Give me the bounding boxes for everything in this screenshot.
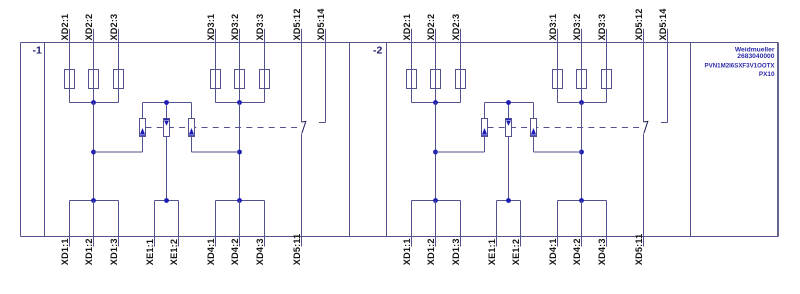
wire -2 fuse element XD3:2: [581, 70, 583, 89]
wire -1 arrester3 to XD3 node: [192, 151, 240, 153]
fuse -2 XD2:2: [431, 70, 441, 89]
svg-text:XD2:1: XD2:1: [60, 14, 70, 41]
svg-text:XD5:14: XD5:14: [316, 8, 326, 41]
wire -1 XD2:3 fuse to bus: [118, 89, 120, 103]
wire -2 XD1:2 drop: [435, 201, 437, 247]
junction -2 right node y152: [579, 150, 584, 155]
surge arrester -2 A3: [531, 119, 537, 137]
wire -1 XD3:2 top stub: [239, 29, 241, 43]
wire -1 arrester3 bottom stub: [191, 137, 193, 153]
wire -1 XD2:1 fuse to bus: [69, 89, 71, 103]
wire -1 XD2:1 top stub: [69, 29, 71, 43]
fuse -2 XD3:1: [553, 70, 563, 89]
svg-text:XE1:1: XE1:1: [145, 239, 155, 265]
wire -1 XD4 bus: [216, 200, 265, 202]
info area divider: [690, 43, 692, 237]
dashed link -1: [146, 127, 299, 129]
svg-text:XD1:2: XD1:2: [426, 238, 436, 265]
wire -1 XD2:2 to fuse: [93, 43, 95, 70]
wire -1 XD1 bus: [70, 200, 119, 202]
wire -2 XD3:3 top stub: [606, 29, 608, 43]
svg-text:XD1:2: XD1:2: [84, 238, 94, 265]
wire -1 XD5:14: [325, 29, 327, 123]
device -1 label divider: [44, 43, 46, 237]
svg-text:XD2:2: XD2:2: [84, 14, 94, 41]
dashed link -2: [488, 127, 641, 129]
surge arrester -1 A1: [140, 119, 146, 137]
wire -2 XD4 bus: [558, 200, 607, 202]
wire -1 fuse element XD2:2: [93, 70, 95, 89]
svg-text:XD2:2: XD2:2: [426, 14, 436, 41]
wire -2 XD3:3 to fuse: [606, 43, 608, 70]
fuse -1 XD3:1: [211, 70, 221, 89]
svg-text:XD4:1: XD4:1: [206, 238, 216, 265]
wire -2 XD3 bus: [558, 102, 607, 104]
svg-text:XD2:1: XD2:1: [402, 14, 412, 41]
device -2 label divider: [386, 43, 388, 237]
wire -2 XD5:14 contact stub: [661, 122, 668, 124]
wire -2 XD4:1 drop: [557, 201, 559, 247]
wire -2 arrester1 bottom stub: [484, 137, 486, 153]
device -1 / -2 divider: [349, 43, 351, 237]
wire -1 fuse element XD2:3: [118, 70, 120, 89]
wire -2 XD3:1 fuse to bus: [557, 89, 559, 103]
junction -1 left node y152: [91, 150, 96, 155]
wire -1 fuse element XD3:1: [215, 70, 217, 89]
wire -2 fuse element XD3:3: [606, 70, 608, 89]
wire -2 XE1 bus: [497, 200, 521, 202]
wire -1 arrester2 to XE1 bus: [166, 137, 168, 201]
wire -1 arrester1 bottom stub: [142, 137, 144, 153]
wire -1 XD4:3 drop: [264, 201, 266, 247]
junction -2 XE1 bus: [506, 198, 511, 203]
wire -2 XD2:1 to fuse: [411, 43, 413, 70]
junction -1 XD1 bus: [91, 198, 96, 203]
wire -1 arrester common bus: [143, 102, 192, 104]
wire -1 XD3:1 fuse to bus: [215, 89, 217, 103]
svg-text:2683040000: 2683040000: [737, 53, 774, 60]
fuse -1 XD3:3: [260, 70, 270, 89]
wire -2 fuse element XD2:1: [411, 70, 413, 89]
surge arrester -1 A2: [164, 119, 170, 137]
arrester -2 A3 arrow up: [531, 128, 536, 134]
svg-text:XD2:3: XD2:3: [451, 14, 461, 41]
wire -2 XD3:3 fuse to bus: [606, 89, 608, 103]
wire -1 XD3:1 top stub: [215, 29, 217, 43]
junction -1 XD2 bus: [91, 100, 96, 105]
wire -1 fuse element XD3:2: [239, 70, 241, 89]
wire -2 XD1:1 drop: [411, 201, 413, 247]
wire -1 XD3:2 drop: [239, 103, 241, 201]
svg-text:XD1:1: XD1:1: [402, 238, 412, 265]
wire -1 XD3:3 fuse to bus: [264, 89, 266, 103]
junction -1 right node y152: [237, 150, 242, 155]
svg-text:PX10: PX10: [759, 71, 775, 78]
wire -2 XD2:1 top stub: [411, 29, 413, 43]
junction -2 arrester bus: [506, 100, 511, 105]
wire -1 XD3:3 to fuse: [264, 43, 266, 70]
wire -2 XD3:1 top stub: [557, 29, 559, 43]
junction -1 XD4 bus: [237, 198, 242, 203]
wire -2 XD2:2 drop: [435, 103, 437, 201]
wire -2 XD1:3 drop: [460, 201, 462, 247]
svg-text:XD5:11: XD5:11: [634, 234, 644, 266]
wire -1 XD2:3 top stub: [118, 29, 120, 43]
wire -1 arrester1 top stub: [142, 103, 144, 119]
wire -1 XE1 bus: [155, 200, 179, 202]
svg-text:XD1:1: XD1:1: [60, 238, 70, 265]
svg-text:XE1:2: XE1:2: [169, 239, 179, 265]
arrester -2 A2 arrow down: [506, 118, 511, 120]
wire -1 XD5:14 contact stub: [319, 122, 326, 124]
svg-text:XD5:12: XD5:12: [634, 8, 644, 40]
svg-text:-2: -2: [373, 44, 382, 56]
arrester -1 A3 arrow up: [189, 128, 194, 134]
wire -2 XD2 bus: [412, 102, 461, 104]
wire -2 arrester2 top stub: [508, 103, 510, 119]
wire -2 XD2:3 fuse to bus: [460, 89, 462, 103]
wire -1 XE1:1 drop: [154, 201, 156, 247]
svg-text:XD5:14: XD5:14: [658, 8, 668, 41]
wire -1 XD4:1 drop: [215, 201, 217, 247]
svg-text:XD4:3: XD4:3: [597, 238, 607, 265]
wire -1 XD2:2 fuse to bus: [93, 89, 95, 103]
wire -2 XD5:14: [667, 29, 669, 123]
svg-text:XD1:3: XD1:3: [109, 238, 119, 265]
wire -2 XD2:3 to fuse: [460, 43, 462, 70]
wire -2 XD2:1 fuse to bus: [411, 89, 413, 103]
wire -2 XD3:2 to fuse: [581, 43, 583, 70]
surge arrester -2 A2: [506, 119, 512, 137]
wire -2 arrester3 bottom stub: [533, 137, 535, 153]
wire -2 XD3:1 to fuse: [557, 43, 559, 70]
arrester -1 A2 arrow down: [164, 118, 169, 120]
device -1 left border: [20, 43, 22, 237]
wire -1 XD4:2 drop: [239, 201, 241, 247]
wire -2 arrester2 to XE1 bus: [508, 137, 510, 201]
svg-text:XD4:2: XD4:2: [572, 238, 582, 265]
arrester -1 A1 arrow up: [140, 128, 145, 134]
wire -2 XD4:2 drop: [581, 201, 583, 247]
fuse -1 XD2:3: [114, 70, 124, 89]
wire -2 XD5:11: [643, 134, 645, 247]
fuse -2 XD3:2: [577, 70, 587, 89]
fuse -1 XD2:1: [65, 70, 75, 89]
wire -2 XD2:3 top stub: [460, 29, 462, 43]
junction -1 XE1 bus: [164, 198, 169, 203]
wire -1 XD3:1 to fuse: [215, 43, 217, 70]
svg-text:XD2:3: XD2:3: [109, 14, 119, 41]
svg-text:XD3:1: XD3:1: [206, 14, 216, 41]
svg-text:PVN1M2I6SXF3V1OOTX: PVN1M2I6SXF3V1OOTX: [705, 63, 776, 70]
wire -2 fuse element XD2:2: [435, 70, 437, 89]
svg-text:XD5:12: XD5:12: [292, 8, 302, 40]
svg-text:XD1:3: XD1:3: [451, 238, 461, 265]
wire -1 XD5:11: [301, 134, 303, 247]
wire -1 XD1:1 drop: [69, 201, 71, 247]
wire -2 XD2:2 fuse to bus: [435, 89, 437, 103]
wire -1 arrester2 top stub: [166, 103, 168, 119]
svg-text:XD3:2: XD3:2: [230, 14, 240, 41]
svg-text:XD5:11: XD5:11: [292, 234, 302, 266]
surge arrester -1 A3: [189, 119, 195, 137]
wire -2 arrester3 to XD3 node: [534, 151, 582, 153]
svg-text:XD3:3: XD3:3: [597, 14, 607, 41]
svg-text:XE1:1: XE1:1: [487, 239, 497, 265]
junction -1 arrester bus: [164, 100, 169, 105]
junction -2 left node y152: [433, 150, 438, 155]
wire -2 fuse element XD2:3: [460, 70, 462, 89]
wire -1 XD3:2 to fuse: [239, 43, 241, 70]
wire -2 XD4:3 drop: [606, 201, 608, 247]
wire -2 arrester1 to XD2 node: [436, 151, 485, 153]
svg-text:XD4:1: XD4:1: [548, 238, 558, 265]
wire -2 XE1:2 drop: [520, 201, 522, 247]
fuse -2 XD2:3: [456, 70, 466, 89]
wire -1 XD2:2 top stub: [93, 29, 95, 43]
part info text: [705, 47, 776, 78]
wire -1 XD3:3 top stub: [264, 29, 266, 43]
wire -2 arrester1 top stub: [484, 103, 486, 119]
wire -2 XD3:2 top stub: [581, 29, 583, 43]
surge arrester -2 A1: [482, 119, 488, 137]
arrester -2 A1 arrow up: [482, 128, 487, 134]
switch contact -1 XD5: [302, 121, 306, 133]
fuse -1 XD2:2: [89, 70, 99, 89]
wire -1 XD1:3 drop: [118, 201, 120, 247]
wire -2 XD3:2 drop: [581, 103, 583, 201]
wire -2 XD3:2 fuse to bus: [581, 89, 583, 103]
svg-text:XD3:1: XD3:1: [548, 14, 558, 41]
device outline top: [21, 42, 779, 44]
device outline bottom: [21, 236, 779, 238]
right border: [777, 43, 779, 237]
junction -2 XD2 bus: [433, 100, 438, 105]
wire -1 XD2:1 to fuse: [69, 43, 71, 70]
wire -1 XD2:2 drop: [93, 103, 95, 201]
wire -1 XD2 bus: [70, 102, 119, 104]
wire -2 arrester common bus: [485, 102, 534, 104]
wire -1 XD3:2 fuse to bus: [239, 89, 241, 103]
wire -1 fuse element XD3:3: [264, 70, 266, 89]
svg-text:XD4:2: XD4:2: [230, 238, 240, 265]
wire -2 fuse element XD3:1: [557, 70, 559, 89]
svg-text:-1: -1: [32, 44, 41, 56]
wire -1 arrester3 top stub: [191, 103, 193, 119]
wire -2 XD2:2 top stub: [435, 29, 437, 43]
junction -2 XD3 bus: [579, 100, 584, 105]
wire -2 XD1 bus: [412, 200, 461, 202]
wire -2 XE1:1 drop: [496, 201, 498, 247]
switch contact -2 XD5: [644, 121, 648, 133]
wire -2 arrester3 top stub: [533, 103, 535, 119]
wire -2 XD5:12: [643, 29, 645, 122]
junction -2 XD1 bus: [433, 198, 438, 203]
svg-text:XD3:3: XD3:3: [255, 14, 265, 41]
wire -1 XD1:2 drop: [93, 201, 95, 247]
wire -1 XE1:2 drop: [178, 201, 180, 247]
svg-text:XD4:3: XD4:3: [255, 238, 265, 265]
svg-text:XD3:2: XD3:2: [572, 14, 582, 41]
svg-text:XE1:2: XE1:2: [511, 239, 521, 265]
fuse -1 XD3:2: [235, 70, 245, 89]
wire -2 XD2:2 to fuse: [435, 43, 437, 70]
wire -1 arrester1 to XD2 node: [94, 151, 143, 153]
fuse -2 XD3:3: [602, 70, 612, 89]
junction -2 XD4 bus: [579, 198, 584, 203]
wire -1 XD2:3 to fuse: [118, 43, 120, 70]
fuse -2 XD2:1: [407, 70, 417, 89]
wire -1 XD3 bus: [216, 102, 265, 104]
wire -1 XD5:12: [301, 29, 303, 122]
wire -1 fuse element XD2:1: [69, 70, 71, 89]
junction -1 XD3 bus: [237, 100, 242, 105]
